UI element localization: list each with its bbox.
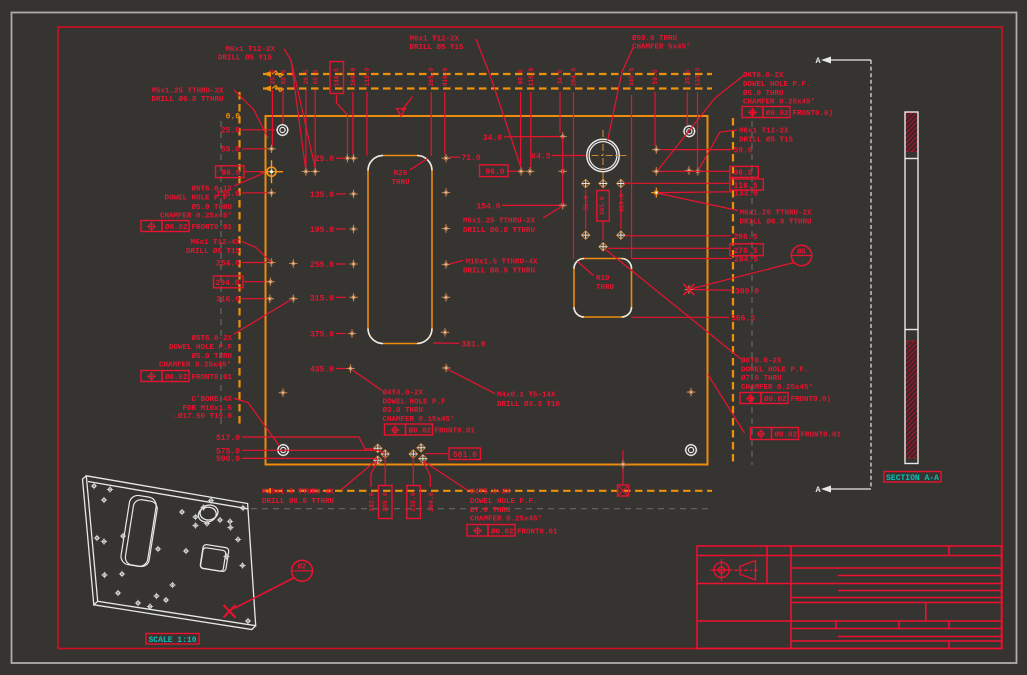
- svg-text:M6x1 Ŧ12-2X: M6x1 Ŧ12-2X: [226, 46, 276, 54]
- holes x562: [559, 132, 567, 209]
- svg-text:276.5: 276.5: [734, 247, 758, 256]
- svg-text:CHAMFER 0.25x45°: CHAMFER 0.25x45°: [743, 97, 815, 106]
- dim 25.0 interior: [315, 155, 346, 164]
- svg-text:340.5: 340.5: [629, 67, 636, 86]
- note M5x1.25 top left: [152, 88, 269, 139]
- dim 135.0 left: [216, 190, 268, 199]
- svg-text:Ø5: Ø5: [797, 248, 805, 257]
- iso small holes: [91, 483, 251, 624]
- iso balloon D2.2: [234, 560, 313, 608]
- dim 276.5 right boxed: [608, 244, 763, 256]
- dim 96.0 right boxed: [659, 166, 758, 178]
- note M6x1 12-4X left: [186, 239, 271, 263]
- holes x656 column: [651, 145, 661, 197]
- svg-text:Ø0.02: Ø0.02: [766, 109, 789, 118]
- svg-text:M10x1.5 ŦTHRU-4X: M10x1.5 ŦTHRU-4X: [466, 259, 539, 267]
- svg-text:DRILL Ø5 Ŧ15: DRILL Ø5 Ŧ15: [410, 43, 465, 52]
- svg-text:DRILL Ø8.5 ŦTHRU: DRILL Ø8.5 ŦTHRU: [463, 267, 536, 276]
- note dowel45 bottom: [467, 488, 558, 537]
- note R10: [578, 262, 615, 292]
- svg-text:0.0: 0.0: [226, 113, 241, 122]
- datum target hole B: [260, 160, 283, 183]
- svg-text:Ø7.0 THRU: Ø7.0 THRU: [470, 506, 511, 515]
- dim 294.0 left boxed: [214, 276, 266, 288]
- dim 154.0: [476, 202, 559, 211]
- hole column x446: [441, 154, 451, 372]
- svg-text:25.0: 25.0: [270, 69, 277, 84]
- bottom marker square: [618, 485, 629, 496]
- hole mid left bottom: [279, 389, 287, 397]
- note M6x1 right: [699, 128, 794, 170]
- datum centerline bottom horizontal: [240, 508, 708, 510]
- svg-text:Ø0.02: Ø0.02: [165, 373, 188, 382]
- svg-text:CHAMFER 0.25x45°: CHAMFER 0.25x45°: [470, 514, 542, 523]
- note M10x1.5 mid: [449, 259, 538, 276]
- dim 300.0 right: [693, 287, 759, 296]
- svg-text:255.0: 255.0: [310, 261, 334, 270]
- dim 316.0 left: [216, 296, 265, 305]
- dim 116.5 right boxed: [624, 179, 763, 191]
- title block grid: [697, 546, 1002, 649]
- svg-text:Ø5.0 THRU: Ø5.0 THRU: [743, 89, 784, 98]
- boxed ordinate label 140.5: [330, 62, 344, 94]
- note M10x1.5 bottom: [262, 489, 335, 506]
- svg-text:71.0: 71.0: [462, 154, 481, 163]
- svg-text:FRONT0.01: FRONT0.01: [192, 374, 233, 382]
- svg-text:M5x1.25 ŦTHRU-2X: M5x1.25 ŦTHRU-2X: [152, 88, 225, 96]
- section bar hatch bottom: [906, 341, 918, 458]
- dowel ordinate lines mid: [586, 190, 621, 241]
- dim 34.0: [483, 134, 560, 143]
- svg-text:26.5: 26.5: [303, 69, 310, 84]
- svg-text:140.5: 140.5: [333, 68, 340, 87]
- svg-text:THRU: THRU: [391, 179, 410, 187]
- svg-text:195.0: 195.0: [310, 226, 334, 235]
- frame tolerance right lower: [708, 375, 842, 440]
- svg-text:294.0: 294.0: [215, 279, 239, 288]
- dim 254.0 left: [216, 259, 266, 268]
- svg-text:Ø6Ŧ6.0-2X: Ø6Ŧ6.0-2X: [191, 334, 232, 343]
- svg-text:R20: R20: [394, 170, 408, 178]
- projection symbol cone: [735, 561, 759, 581]
- svg-text:284.5: 284.5: [734, 256, 758, 265]
- holes x689 x698 row171: [685, 166, 702, 175]
- svg-text:CHAMFER 0.25x45°: CHAMFER 0.25x45°: [159, 361, 231, 370]
- svg-text:366.5: 366.5: [731, 315, 755, 324]
- svg-text:FRONT0.0): FRONT0.0): [793, 110, 834, 118]
- svg-text:M6x1 Ŧ12-2X: M6x1 Ŧ12-2X: [410, 36, 460, 44]
- note M6x1.25 mid: [463, 206, 563, 235]
- plate outline: [266, 116, 708, 465]
- svg-text:∟Ø17.50 Ŧ19.0: ∟Ø17.50 Ŧ19.0: [173, 412, 232, 421]
- dim 195.0 interior: [310, 226, 346, 235]
- ordinate baseline top first: [263, 71, 712, 77]
- svg-text:Ø5.0 THRU: Ø5.0 THRU: [191, 352, 232, 361]
- svg-text:DOWEL HOLE P.F.: DOWEL HOLE P.F.: [743, 81, 811, 89]
- svg-text:410.0: 410.0: [442, 67, 449, 86]
- section bar outline: [905, 112, 918, 464]
- svg-text:34.0: 34.0: [557, 69, 564, 84]
- svg-text:205.0: 205.0: [382, 492, 389, 512]
- dim 284.5 right: [632, 256, 759, 265]
- svg-text:CHAMFER 0.15x45°: CHAMFER 0.15x45°: [383, 415, 455, 424]
- svg-text:206.5: 206.5: [734, 233, 758, 242]
- dim 71.0: [449, 154, 481, 163]
- iso slot R10: [200, 544, 229, 572]
- section arrow bottom: [821, 486, 831, 493]
- svg-text:Ø0.02: Ø0.02: [409, 427, 432, 436]
- svg-text:517.0: 517.0: [216, 434, 240, 443]
- svg-text:25.0: 25.0: [684, 69, 691, 84]
- svg-text:DOWEL HOLE P.F: DOWEL HOLE P.F: [169, 344, 233, 352]
- ordinate baseline top second: [263, 86, 712, 92]
- note M4x0.1: [448, 370, 561, 410]
- svg-text:Ø8Ŧ8.0-2X: Ø8Ŧ8.0-2X: [741, 357, 782, 366]
- holes row 171 x305 x315: [302, 167, 320, 175]
- svg-text:265.0: 265.0: [428, 67, 435, 86]
- iso plate body: [83, 476, 256, 630]
- svg-text:Ø0.02: Ø0.02: [764, 395, 787, 404]
- svg-text:590.0: 590.0: [216, 455, 240, 464]
- svg-text:25.0: 25.0: [221, 127, 240, 136]
- svg-text:410.0: 410.0: [618, 193, 625, 212]
- svg-text:Ø6Ŧ6.0-1X: Ø6Ŧ6.0-1X: [191, 185, 232, 194]
- svg-text:DRILL Ø5 Ŧ15: DRILL Ø5 Ŧ15: [186, 247, 241, 256]
- svg-text:160.0: 160.0: [350, 67, 357, 86]
- svg-text:Ø3.0 THRU: Ø3.0 THRU: [383, 406, 424, 415]
- dim 581.0 boxed: [425, 448, 481, 460]
- svg-text:59.0: 59.0: [221, 146, 240, 155]
- svg-text:A: A: [815, 56, 821, 66]
- svg-text:115.0: 115.0: [364, 67, 371, 86]
- section arrow top: [821, 57, 831, 64]
- svg-text:M6x1.25 ŦTHRU-2X: M6x1.25 ŦTHRU-2X: [740, 210, 813, 218]
- svg-text:55.0: 55.0: [583, 195, 590, 210]
- svg-text:DRILL Ø6.8 ŦTHRU: DRILL Ø6.8 ŦTHRU: [463, 226, 536, 235]
- cluster leader M10: [341, 462, 375, 491]
- svg-text:SECTION A-A: SECTION A-A: [886, 474, 939, 483]
- balloon D5: [693, 245, 812, 288]
- dowel ordinate labels mid: [583, 191, 625, 222]
- hole mid right bottom: [687, 388, 695, 396]
- svg-text:Ø5.0 THRU: Ø5.0 THRU: [191, 203, 232, 212]
- svg-text:135.0: 135.0: [310, 191, 334, 200]
- svg-text:DRILL Ø6.8 ŦTHRU: DRILL Ø6.8 ŦTHRU: [740, 218, 813, 227]
- svg-text:A: A: [815, 485, 821, 495]
- dim 59.0 right: [661, 147, 753, 156]
- link line x562: [562, 137, 564, 206]
- svg-text:264.0: 264.0: [428, 492, 435, 512]
- surface finish flag: [397, 97, 413, 117]
- bore D50: [578, 130, 629, 181]
- note M6x1 12-2X top left: [218, 46, 315, 168]
- svg-text:M6x1 Ŧ12-2X: M6x1 Ŧ12-2X: [739, 128, 789, 136]
- svg-text:DOWEL HOLE P.F.: DOWEL HOLE P.F.: [164, 195, 232, 203]
- svg-text:FOR M10x1.5: FOR M10x1.5: [182, 405, 232, 413]
- slot R20: [368, 156, 432, 344]
- crossed hole x689: [684, 284, 695, 295]
- note dowel 6-2X left lower: [141, 300, 291, 382]
- note dowel 6-2X top right: [658, 71, 833, 170]
- dim 315.0 interior: [310, 294, 346, 303]
- ordinate bent line 140.5: [337, 95, 348, 154]
- svg-text:435.0: 435.0: [310, 366, 334, 375]
- svg-text:116.5: 116.5: [528, 67, 535, 86]
- note dowel8 right: [605, 249, 831, 404]
- bottom rotated label 205.0 boxed: [379, 486, 393, 519]
- svg-text:381.0: 381.0: [462, 340, 486, 349]
- svg-text:SCALE 1:10: SCALE 1:10: [148, 636, 196, 645]
- bolt circle top left: [276, 124, 289, 137]
- svg-text:34.0: 34.0: [483, 134, 502, 143]
- svg-text:Ø0.02: Ø0.02: [775, 431, 798, 440]
- hole column left edge: [266, 145, 276, 303]
- dim 64.5: [531, 153, 586, 162]
- note dowel4 mid left: [353, 370, 476, 436]
- svg-text:Ø50.0 THRU: Ø50.0 THRU: [632, 34, 678, 43]
- dim 25.0 left: [221, 127, 275, 136]
- ordinate value labels top: [270, 67, 702, 86]
- dim 96.0 interior boxed: [480, 165, 519, 177]
- svg-text:M6x1 Ŧ12-4X: M6x1 Ŧ12-4X: [190, 239, 240, 247]
- svg-text:133.0: 133.0: [695, 67, 702, 86]
- svg-text:Ø0.02: Ø0.02: [165, 223, 188, 232]
- svg-text:FRONT0.01: FRONT0.01: [192, 224, 233, 232]
- svg-text:315.0: 315.0: [310, 294, 334, 303]
- svg-text:182.0: 182.0: [369, 492, 376, 512]
- dim 206.5 right: [625, 233, 758, 242]
- svg-text:DRILL Ø5 Ŧ15: DRILL Ø5 Ŧ15: [218, 54, 273, 63]
- svg-text:CHAMFER 0.25x45°: CHAMFER 0.25x45°: [160, 211, 232, 220]
- svg-text:FRONT0.0): FRONT0.0): [791, 396, 832, 404]
- dim 375.0 interior: [310, 331, 346, 340]
- svg-text:133.0: 133.0: [734, 189, 758, 198]
- iso X mark: [224, 605, 236, 618]
- bolt circle top right: [683, 125, 696, 138]
- note dowel 6-1X left: [141, 173, 264, 232]
- bolt circle bottom left: [277, 444, 290, 457]
- svg-text:96.0: 96.0: [518, 69, 525, 84]
- ordinate datum vertical right: [732, 118, 734, 465]
- svg-text:96.0: 96.0: [485, 168, 504, 177]
- svg-text:Ø7.0 THRU: Ø7.0 THRU: [741, 374, 782, 383]
- slot R10: [574, 259, 632, 318]
- cluster ordinate lines bottom: [371, 457, 430, 488]
- dim 255.0 interior: [310, 261, 346, 270]
- iso slot R20: [120, 494, 159, 568]
- svg-text:DRILL Ø6.8 ŦTHRU: DRILL Ø6.8 ŦTHRU: [152, 95, 225, 104]
- dim 96.0 left boxed: [216, 166, 266, 178]
- svg-text:235.0: 235.0: [410, 492, 417, 512]
- section title: [884, 472, 941, 483]
- svg-text:265.0: 265.0: [599, 196, 606, 215]
- note M6x1 12-2X top mid: [410, 36, 521, 167]
- section bar hatch top: [906, 113, 918, 152]
- svg-text:96.0: 96.0: [734, 169, 753, 178]
- svg-text:DRILL Ø5 Ŧ15: DRILL Ø5 Ŧ15: [739, 136, 794, 145]
- svg-text:DOWEL HOLE P.F.: DOWEL HOLE P.F.: [741, 367, 809, 375]
- svg-text:65.5: 65.5: [312, 69, 319, 84]
- svg-text:300.0: 300.0: [735, 287, 759, 296]
- svg-text:CHAMFER 5x45°: CHAMFER 5x45°: [632, 43, 691, 52]
- svg-text:65.5: 65.5: [280, 69, 287, 84]
- svg-text:C’BORE-4X: C’BORE-4X: [191, 396, 232, 404]
- svg-text:THRU: THRU: [596, 284, 615, 292]
- svg-text:25.0: 25.0: [315, 155, 334, 164]
- bolt circle bottom right: [685, 444, 698, 457]
- section cut line A-A: [831, 60, 871, 489]
- holes pair x521 x530 row171: [517, 167, 534, 175]
- dim 435.0 interior: [310, 366, 346, 375]
- bottom dowel cluster: [374, 444, 428, 465]
- cluster leader dowel45: [424, 462, 468, 491]
- svg-text:Ø4Ŧ4.0-2X: Ø4Ŧ4.0-2X: [383, 389, 424, 398]
- projection symbol target: [711, 559, 733, 581]
- svg-text:M10x1.5 ŦTHRU-4X: M10x1.5 ŦTHRU-4X: [262, 489, 335, 497]
- holes x293: [289, 259, 297, 303]
- svg-text:M6x1.25 ŦTHRU-2X: M6x1.25 ŦTHRU-2X: [463, 218, 536, 226]
- svg-text:FRONT0.01: FRONT0.01: [435, 428, 476, 436]
- bottom edge hole line: [619, 450, 627, 486]
- scale label: [146, 634, 199, 645]
- dim 381.0: [433, 340, 486, 349]
- svg-text:FRONT0.01: FRONT0.01: [517, 528, 558, 536]
- iso bore D50: [197, 503, 219, 523]
- svg-text:59.0: 59.0: [652, 69, 659, 84]
- dim 135.0 interior: [310, 191, 346, 200]
- svg-text:Ø4Ŧ5.0-2X: Ø4Ŧ5.0-2X: [470, 488, 511, 497]
- dim 59.0 left: [221, 146, 266, 155]
- dim 133.0 right: [658, 189, 758, 198]
- svg-text:59.0: 59.0: [734, 147, 753, 156]
- hole column x353: [346, 190, 357, 373]
- datum centerline left vertical: [220, 121, 222, 429]
- holes pair x347 x353 row158: [343, 154, 358, 162]
- bottom rotated label 235.0 boxed: [407, 486, 421, 519]
- svg-text:64.5: 64.5: [531, 153, 550, 162]
- ordinate baseline bottom: [263, 488, 712, 494]
- svg-text:R10: R10: [596, 275, 610, 283]
- svg-text:FRONT0.01: FRONT0.01: [801, 432, 842, 440]
- note bore50: [608, 34, 691, 141]
- note cbore left: [173, 396, 279, 446]
- dim 575.0 left: [216, 447, 385, 456]
- svg-text:316.0: 316.0: [216, 296, 240, 305]
- svg-text:154.0: 154.0: [476, 202, 500, 211]
- svg-text:375.0: 375.0: [310, 331, 334, 340]
- svg-text:DOWEL HOLE P.F.: DOWEL HOLE P.F.: [470, 498, 538, 506]
- svg-text:Ø2: Ø2: [298, 563, 306, 572]
- dim 517.0 left: [216, 434, 373, 449]
- svg-text:DRILL Ø8.5 ŦTHRU: DRILL Ø8.5 ŦTHRU: [262, 497, 335, 506]
- dim 590.0 left: [216, 455, 378, 464]
- svg-text:DRILL Ø3.3 Ŧ10: DRILL Ø3.3 Ŧ10: [497, 400, 561, 409]
- svg-text:CHAMFER 0.25x45°: CHAMFER 0.25x45°: [741, 383, 813, 392]
- svg-text:M4x0.1 Ŧ5-14X: M4x0.1 Ŧ5-14X: [497, 392, 556, 400]
- svg-text:Ø6Ŧ6.0-2X: Ø6Ŧ6.0-2X: [743, 71, 784, 80]
- note M6x1.25 right: [659, 194, 812, 227]
- ordinate datum vertical left: [238, 92, 240, 428]
- svg-text:581.0: 581.0: [453, 451, 477, 460]
- svg-text:Ø0.02: Ø0.02: [491, 527, 514, 536]
- svg-text:96.0: 96.0: [221, 169, 240, 178]
- note R20: [391, 159, 427, 187]
- ordinate extension lines top: [272, 90, 697, 259]
- svg-text:DOWEL HOLE P.F: DOWEL HOLE P.F: [383, 399, 447, 407]
- svg-text:254.0: 254.0: [216, 259, 240, 268]
- svg-text:284.5: 284.5: [571, 67, 578, 86]
- dowel markers below bore: [582, 179, 626, 251]
- dim 366.5 right: [632, 315, 756, 324]
- datum centerline right vertical: [751, 121, 753, 465]
